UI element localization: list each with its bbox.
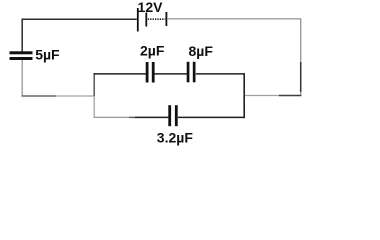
wire inner block top edge left segment	[94, 73, 147, 75]
wire bottom-left (left vertical to inner block left edge)	[22, 95, 95, 97]
svg-text:3.2µF: 3.2µF	[157, 130, 194, 146]
wire top-left (battery to top-left corner)	[22, 18, 137, 20]
wire left vertical lower (C1 to bottom-left corner)	[21, 60, 23, 97]
svg-text:2µF: 2µF	[140, 43, 165, 59]
wire inner block top edge right segment	[196, 73, 245, 75]
capacitor C4 3.2uF	[168, 105, 177, 126]
svg-text:8µF: 8µF	[189, 43, 214, 59]
wire inner block top edge middle segment	[155, 73, 188, 75]
svg-text:12V: 12V	[138, 0, 164, 15]
svg-text:5µF: 5µF	[35, 47, 60, 63]
wire inner block bottom edge right segment	[178, 116, 245, 118]
capacitor C2 2uF	[146, 62, 155, 83]
capacitor C1 5uF	[10, 51, 33, 60]
wire inner block left edge	[93, 73, 95, 118]
battery B1 (12V, multi-cell with dotted continuation)	[137, 8, 167, 32]
capacitor C3 8uF	[187, 62, 196, 83]
wire inner block bottom edge left segment	[94, 116, 169, 118]
wire right middle (outer right vertical to inner block right edge)	[244, 95, 301, 97]
wire right vertical (outer loop)	[300, 19, 302, 96]
wire top-right (battery to top-right corner)	[167, 18, 301, 20]
wire left vertical upper (top-left corner to C1)	[21, 19, 23, 53]
wire inner block right edge	[243, 73, 245, 118]
